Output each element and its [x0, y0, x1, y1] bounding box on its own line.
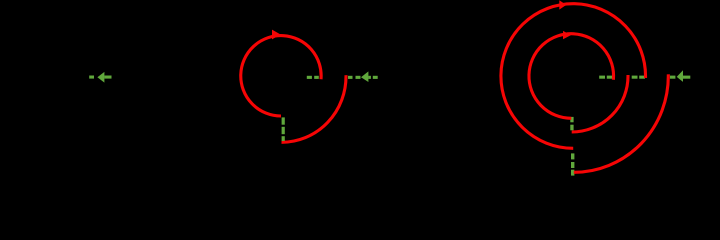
- figure (c): cut arrowhead tail bar: [683, 76, 690, 79]
- figure (c): inner contour circle A1, 270 deg S-W-N-E, r=42.2 c=(572,76): [529, 34, 614, 119]
- figure (c): vertical sheet-jump set2 dash 3: [571, 170, 574, 176]
- figure (c): second contour arc A2, SE quadrant, r=56.3: [572, 75, 628, 132]
- figure (b): cut dash 4: [356, 76, 361, 79]
- figure (b): cut dash 3: [348, 76, 353, 79]
- figure (c): vertical sheet-jump set1 dash 2: [570, 125, 573, 131]
- figure (b): cut arrowhead tail bar: [368, 76, 371, 79]
- figure (b): cut dash 2: [314, 76, 319, 79]
- figure (c): outermost contour arc A4, SE quadrant, r=96.4: [574, 74, 669, 172]
- figure (b): inner contour circle, 270 deg S-W-N-E, r=40.3 c=(281,76): [241, 36, 321, 116]
- figure (c): cut dash 3: [632, 76, 638, 79]
- figure (b): direction arrowhead on inner circle top: [272, 30, 281, 40]
- figure (c): cut dash 4: [639, 76, 645, 79]
- figure (b): vertical sheet-jump dash 3: [282, 136, 285, 141]
- figure (c): direction arrowhead on inner circle top: [563, 31, 571, 39]
- figure (b): vertical sheet-jump dash 2: [282, 127, 285, 134]
- figure (a): branch cut dash right of arrowhead: [104, 76, 111, 79]
- figure (b): cut dash 1: [307, 76, 312, 79]
- figure (c): vertical sheet-jump set2 dash 2: [571, 162, 574, 168]
- figure (b): cut arrowhead pointing left: [361, 71, 368, 82]
- figure (a): branch cut dash left: [89, 76, 94, 79]
- figure (c): direction arrowhead on outer circle top: [559, 0, 566, 9]
- figure (b): vertical sheet-jump dash 1: [282, 117, 285, 124]
- figure (c): cut dash 2: [607, 76, 614, 79]
- figure (c): cut dash 5: [670, 76, 676, 79]
- figure (c): cut arrowhead pointing left: [677, 70, 683, 82]
- figure (c): vertical sheet-jump set1 dash 1: [570, 117, 573, 122]
- figure (c): vertical sheet-jump set2 dash 1: [571, 153, 574, 159]
- figure (c): third contour circle A3, 270 deg S-W-N-E, r=71: [501, 4, 646, 149]
- figure (b): cut dash 5: [373, 76, 378, 79]
- figure (c): cut dash 1: [599, 76, 605, 79]
- figure (a): branch cut arrowhead pointing left: [97, 72, 104, 83]
- figure (b): outer contour arc, SE quadrant, r=65: [282, 75, 347, 142]
